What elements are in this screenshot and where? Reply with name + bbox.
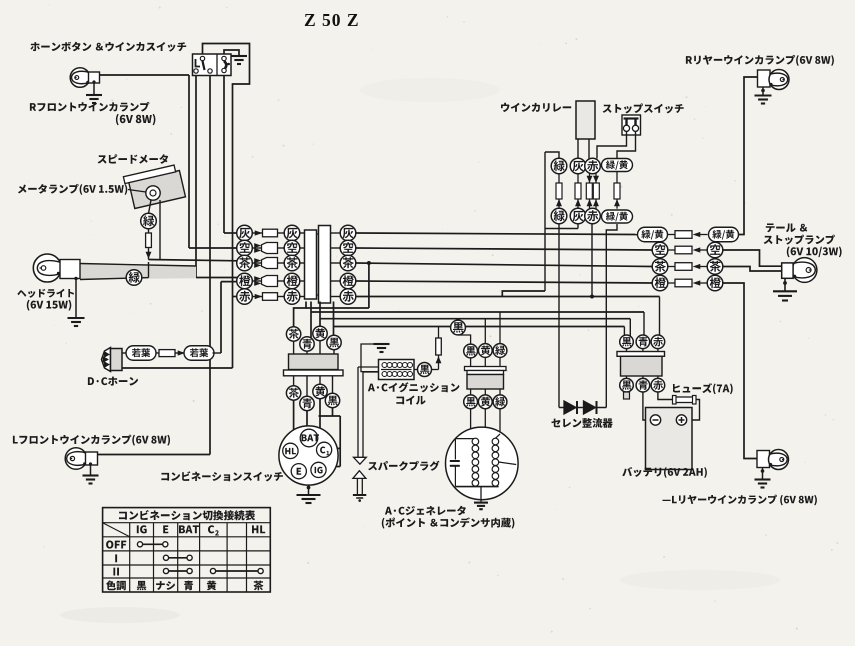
svg-text:Z 50 Z: Z 50 Z [304, 10, 360, 30]
